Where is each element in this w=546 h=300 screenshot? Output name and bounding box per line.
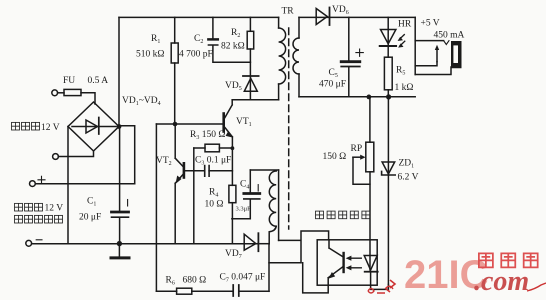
- label guang dian ou he guan: [316, 211, 370, 219]
- wire R6 to C7: [192, 290, 233, 292]
- transformer feedback winding: [269, 171, 276, 226]
- wire plus terminal: [35, 183, 134, 185]
- wire fuse to bridge top: [81, 93, 95, 104]
- transistor VT1: [222, 114, 225, 132]
- svg-text:R5: R5: [396, 66, 405, 77]
- plug insert arrow: [436, 48, 438, 62]
- potentiometer RP wire top: [369, 97, 371, 142]
- bridge rectifier VD1~VD4 (diamond): [68, 102, 119, 151]
- node ground junction (dot): [117, 241, 122, 246]
- svg-text:R1: R1: [151, 34, 160, 45]
- svg-text:VD6: VD6: [332, 5, 349, 16]
- svg-text:82 kΩ: 82 kΩ: [221, 42, 245, 52]
- svg-text:.com: .com: [474, 266, 529, 297]
- wire AC2 to bridge bottom: [58, 151, 93, 157]
- svg-text:6.2 V: 6.2 V: [398, 173, 419, 183]
- label dian yuan shu ru duan: [15, 215, 63, 223]
- capacitor C5: [341, 60, 360, 63]
- svg-text:150 Ω: 150 Ω: [323, 152, 347, 162]
- wire R4 to bottom rail: [231, 203, 233, 244]
- wire bottom loop left: [156, 290, 176, 292]
- svg-text:4 700 pF: 4 700 pF: [179, 50, 213, 60]
- transformer TR primary: [278, 17, 280, 28]
- transistor VT2 (mirrored): [183, 163, 186, 177]
- wire top rail right: [329, 16, 415, 18]
- wire jog plus-terminal to bridge plus: [119, 126, 135, 184]
- zener diode ZD1: [382, 162, 395, 174]
- diode VD6: [299, 16, 330, 18]
- wire opto emitter branch: [269, 262, 301, 264]
- photocoupler box: [317, 240, 377, 285]
- svg-text:510 kΩ: 510 kΩ: [136, 50, 164, 60]
- svg-text:VD7: VD7: [225, 249, 242, 260]
- svg-text:FU: FU: [63, 76, 75, 86]
- label jie jiao liu 12V: [12, 122, 60, 132]
- wire C1 to bottom rail: [119, 218, 121, 243]
- wire fuse left: [58, 92, 64, 94]
- svg-text:C7 0.047 μF: C7 0.047 μF: [220, 273, 266, 284]
- watermark dian zi wang: [479, 253, 538, 267]
- notch: [444, 41, 449, 45]
- watermark red mark left: [385, 280, 395, 292]
- HR arrows: [400, 35, 405, 46]
- zener wire top: [387, 97, 389, 175]
- wire plug sleeve: [415, 62, 437, 66]
- wire VD7 to junction: [256, 243, 269, 245]
- svg-text:R6: R6: [166, 276, 175, 287]
- wire stair to opto collector: [279, 231, 329, 263]
- svg-text:ZD1: ZD1: [399, 159, 415, 170]
- svg-text:VD5: VD5: [225, 81, 242, 92]
- terminal DC minus (circle): [26, 240, 32, 246]
- node bridge plus (dot): [117, 124, 122, 129]
- wire ZD1 down: [387, 176, 389, 285]
- wire output riser: [414, 17, 416, 74]
- svg-text:VT2: VT2: [156, 156, 172, 167]
- wire feedback line down (x=278.6): [278, 170, 280, 240]
- resistor R3: [205, 144, 219, 152]
- wire plug tip: [415, 40, 443, 42]
- wire junction down to bottom loop: [268, 244, 270, 292]
- svg-text:VD1~VD4: VD1~VD4: [122, 96, 161, 107]
- svg-text:R3 150 Ω: R3 150 Ω: [190, 130, 225, 141]
- svg-text:R2: R2: [231, 28, 240, 39]
- plus mark C5: [356, 49, 363, 56]
- svg-text:VT1: VT1: [236, 117, 252, 128]
- capacitor C5 470uF wires: [348, 17, 350, 96]
- resistor R6 680: [177, 288, 192, 294]
- capacitor C4 3.3uF wires: [232, 170, 250, 219]
- bridge internal diode: [72, 126, 116, 128]
- label dian yan qi 12V: [15, 203, 64, 213]
- ground: [118, 244, 120, 257]
- capacitor C1: [112, 211, 129, 214]
- svg-text:C5: C5: [329, 68, 338, 79]
- terminal AC input 1 (circle): [52, 90, 58, 96]
- resistor R2: [247, 31, 254, 49]
- node RP tap (dot): [367, 95, 372, 100]
- transformer TR secondary: [298, 17, 300, 38]
- resistor R4 10ohm: [229, 185, 236, 202]
- resistor R1 wires: [174, 17, 176, 123]
- potentiometer RP: [366, 142, 374, 172]
- resistor R5 1k: [384, 57, 392, 90]
- wire C7 to junction riser: [239, 290, 269, 292]
- resistor R3 wires: [194, 147, 233, 149]
- capacitor C2 wires: [213, 17, 251, 62]
- resistor R2 wires: [249, 17, 251, 99]
- RP wiper arrow: [353, 156, 363, 158]
- wire VT2 base rail: [185, 170, 233, 172]
- svg-text:0.5 A: 0.5 A: [88, 76, 109, 86]
- svg-text:C1: C1: [87, 197, 96, 208]
- wire bridge plus down to C1: [119, 127, 121, 211]
- svg-text:12 V: 12 V: [45, 204, 64, 214]
- opto coupling arrows: [350, 258, 361, 268]
- diode VD5 (points up): [243, 75, 259, 77]
- fuse FU: [64, 89, 81, 95]
- node (dot): [231, 146, 235, 150]
- node R1 bottom (dot): [173, 122, 178, 127]
- minus sign: [36, 239, 42, 241]
- svg-text:C4: C4: [240, 180, 249, 191]
- plug body: [451, 41, 462, 68]
- svg-text:HR: HR: [398, 20, 412, 30]
- wire bridge minus down (x=68): [67, 127, 69, 244]
- svg-text:680 Ω: 680 Ω: [183, 276, 207, 286]
- wire RP down to opto LED: [369, 172, 371, 270]
- wire bottom rail: [32, 243, 259, 245]
- svg-text:C2: C2: [194, 34, 203, 45]
- terminal DC plus (circle): [30, 181, 36, 187]
- opto LED: [364, 256, 377, 271]
- wire secondary return rail: [299, 96, 415, 98]
- wire R5 bottom: [387, 90, 389, 97]
- node R5 bottom (dot): [386, 94, 391, 99]
- wire output return: [415, 67, 451, 75]
- opto transistor: [342, 253, 344, 272]
- wire left drop to bottom loop (x=156): [155, 124, 157, 291]
- svg-text:TR: TR: [282, 7, 295, 17]
- RP wiper link: [353, 157, 370, 184]
- svg-text:C3 0.1 μF: C3 0.1 μF: [195, 156, 231, 167]
- wire VT1 emitter down (x=232): [231, 148, 233, 185]
- wire C4 top to feedback winding: [250, 169, 278, 171]
- plus sign: [38, 176, 45, 183]
- wire bridge plus up to top rail: [118, 17, 120, 126]
- svg-text:RP: RP: [351, 144, 363, 154]
- watermark 21IC: [368, 253, 546, 297]
- wire R3 left drop (x=194): [193, 148, 195, 244]
- LED HR: [387, 17, 389, 46]
- wire opto LED cathode: [371, 272, 389, 290]
- diode VD7: [244, 234, 256, 250]
- svg-text:20 μF: 20 μF: [79, 213, 101, 223]
- svg-text:3.3μF: 3.3μF: [236, 206, 252, 213]
- svg-text:R4: R4: [209, 188, 218, 199]
- wire top rail left: [119, 16, 279, 18]
- wire VT1 collector rail: [232, 99, 278, 101]
- wire VT1 base rail: [156, 123, 222, 125]
- capacitor C4: [244, 192, 260, 195]
- resistor R1: [171, 43, 178, 63]
- svg-text:450 mA: 450 mA: [434, 31, 465, 41]
- svg-text:470 μF: 470 μF: [319, 80, 346, 90]
- watermark red scribble: [368, 283, 546, 293]
- capacitor C2: [208, 38, 217, 41]
- capacitor C3: [205, 166, 209, 177]
- wire emitter riser: [303, 263, 329, 293]
- svg-text:10 Ω: 10 Ω: [205, 200, 224, 210]
- svg-text:12 V: 12 V: [41, 123, 60, 133]
- terminal AC input 2 (circle): [53, 154, 59, 160]
- transformer core (dashed): [288, 28, 290, 229]
- capacitor C7: [233, 285, 239, 296]
- svg-text:1 kΩ: 1 kΩ: [395, 83, 414, 93]
- svg-text:+5 V: +5 V: [421, 19, 440, 29]
